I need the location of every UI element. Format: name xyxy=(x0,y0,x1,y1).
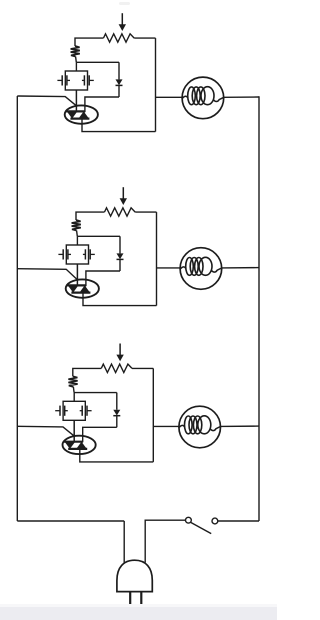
wire: resistor left lead xyxy=(73,368,102,376)
wire: diode return to triac xyxy=(85,97,119,112)
series resistor (vertical squiggle) xyxy=(68,376,77,387)
wire: junction to capacitor box xyxy=(75,62,77,71)
wire: right branch vertical xyxy=(152,368,154,462)
wire: junction to diode branch xyxy=(74,392,117,394)
capacitor C2 (right) xyxy=(83,253,86,255)
wire: load to right bus xyxy=(222,267,259,269)
potentiometer resistor body xyxy=(104,34,135,42)
left bus wire xyxy=(16,96,18,521)
wire: squiggle to junction xyxy=(72,387,75,393)
capacitor network box xyxy=(63,401,85,420)
wire: to load xyxy=(157,267,181,269)
capacitor C2 (right) xyxy=(82,79,85,81)
wire: to load xyxy=(156,96,183,98)
AC plug body xyxy=(117,560,152,591)
wire: triac to right branch (bottom) xyxy=(82,118,156,131)
wire: gate from left bus xyxy=(17,269,77,280)
page footer bar xyxy=(0,604,277,607)
right bus wire xyxy=(258,96,260,521)
triac (in circle) xyxy=(66,279,99,297)
capacitor C1 (left) xyxy=(55,410,60,412)
wire: resistor right lead xyxy=(135,211,156,213)
capacitor network box xyxy=(66,245,88,264)
series resistor (vertical squiggle) xyxy=(71,46,80,57)
plug prong left xyxy=(129,592,131,605)
wire: box to triac xyxy=(76,264,78,286)
wire: resistor left lead xyxy=(75,38,104,46)
diode D1 xyxy=(119,236,121,253)
bottom bus wire xyxy=(17,520,124,522)
potentiometer resistor body xyxy=(101,364,132,372)
wire: load to right bus xyxy=(220,425,259,427)
diode D1 xyxy=(116,393,118,410)
series resistor (vertical squiggle) xyxy=(72,220,81,231)
wire: junction to diode branch xyxy=(76,61,119,63)
capacitor C1 (left) xyxy=(58,253,63,255)
load motor/lamp circle xyxy=(180,248,222,290)
wire: squiggle to junction xyxy=(76,231,79,237)
wire: squiggle to junction xyxy=(75,57,78,63)
capacitor network box xyxy=(65,71,87,90)
wire: gate from left bus xyxy=(17,96,76,106)
wire: junction to capacitor box xyxy=(73,393,75,402)
wire: switch to right bus xyxy=(218,520,259,522)
wire: gate from left bus xyxy=(17,426,74,436)
coil winding xyxy=(185,416,193,434)
diode D1 xyxy=(118,62,120,79)
triac (in circle) xyxy=(63,436,96,454)
wire: resistor right lead xyxy=(134,37,155,39)
wire: right branch vertical xyxy=(155,38,157,132)
switch contact left xyxy=(186,517,192,523)
switch contact right xyxy=(212,518,218,524)
wire: load to right bus xyxy=(224,96,259,98)
wire: box to triac xyxy=(75,90,77,112)
load motor/lamp circle xyxy=(179,406,221,448)
wire: junction to capacitor box xyxy=(76,236,78,245)
triac (in circle) xyxy=(65,105,98,123)
wire: right branch vertical xyxy=(156,212,158,306)
wire: resistor left lead xyxy=(76,212,105,220)
wire: box to triac xyxy=(73,420,75,442)
potentiometer wiper arrow xyxy=(122,187,124,203)
load motor/lamp circle xyxy=(182,77,224,119)
capacitor C2 (right) xyxy=(80,410,83,412)
wire: diode return to triac xyxy=(86,271,120,286)
capacitor C1 (left) xyxy=(57,79,62,81)
wire: triac to right branch (bottom) xyxy=(80,449,154,462)
wire: plug right to switch xyxy=(145,520,185,562)
coil winding xyxy=(188,87,196,105)
wire: junction to diode branch xyxy=(77,235,120,237)
potentiometer wiper arrow xyxy=(119,344,121,360)
potentiometer wiper arrow xyxy=(121,13,123,29)
wire: diode return to triac xyxy=(83,427,117,442)
wire: bottom bus to plug left xyxy=(123,521,125,563)
potentiometer resistor body xyxy=(105,208,136,216)
faint artifact top center xyxy=(119,2,130,5)
wire: resistor right lead xyxy=(132,367,153,369)
switch lever (open) xyxy=(191,522,212,533)
wire: triac to right branch (bottom) xyxy=(83,292,157,305)
coil winding xyxy=(186,258,194,276)
wire: to load xyxy=(153,425,179,427)
plug prong right xyxy=(140,592,142,605)
